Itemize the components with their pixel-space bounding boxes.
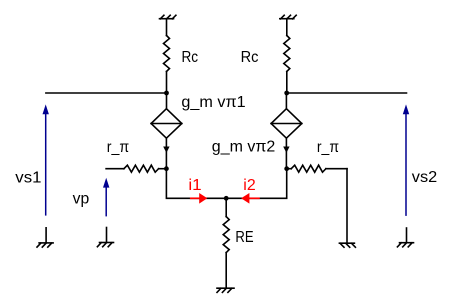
svg-text:vs1: vs1 <box>15 169 41 186</box>
current direction arrow of G2 <box>283 147 289 153</box>
voltage arrow vs2 (blue) <box>403 104 409 215</box>
svg-text:r_π: r_π <box>107 139 129 156</box>
node B2 (junction dot) <box>284 91 289 96</box>
svg-text:vs2: vs2 <box>412 169 437 186</box>
ground under vs2 <box>397 228 413 247</box>
ground under r_pi right (hatches to the right) <box>339 243 355 247</box>
svg-text:vp: vp <box>73 191 90 208</box>
voltage arrow vp (blue) <box>103 178 109 217</box>
node E (center junction dot) <box>224 196 229 201</box>
current direction arrow of G1 <box>163 147 169 153</box>
node E2 (junction dot) <box>284 166 289 171</box>
wire source G1 to node E1 <box>165 138 167 169</box>
wire right collector rail <box>287 92 407 94</box>
svg-text:Rc: Rc <box>182 49 199 66</box>
current arrow i1 (red, pointing right) <box>190 193 207 204</box>
current arrow i2 (red, pointing left) <box>241 193 260 204</box>
wire left collector rail <box>46 92 167 94</box>
ground under RE <box>217 288 234 292</box>
wire source G2 to node E2 <box>285 138 287 169</box>
svg-text:Rc: Rc <box>241 49 259 66</box>
node B1 (junction dot) <box>164 91 169 96</box>
supply rail right (VCC bar with hatches) <box>280 15 296 19</box>
wire supply-right to Rc2 <box>286 19 288 36</box>
wire Rc1 to collector node B1 <box>166 72 168 94</box>
wire Rc2 to node B2 <box>286 72 288 94</box>
svg-text:g_m vπ1: g_m vπ1 <box>181 94 245 111</box>
supply rail left (VCC bar with hatches) <box>160 15 176 19</box>
wire r_pi right to ground <box>346 169 348 244</box>
resistor RE (emitter resistor) <box>223 198 229 288</box>
svg-text:i2: i2 <box>243 177 256 194</box>
ground under vs1 <box>37 228 53 247</box>
resistor r_pi right (horizontal) <box>287 165 347 172</box>
wire node E1 down to emitter bus <box>166 169 226 199</box>
svg-text:r_π: r_π <box>317 139 339 156</box>
wire emitter bus right segment <box>226 169 287 199</box>
node E1 (junction dot) <box>164 166 169 171</box>
svg-text:g_m vπ2: g_m vπ2 <box>212 139 276 156</box>
controlled current source G2 (diamond) <box>271 109 302 139</box>
wire node B1 to source G1 <box>166 93 168 109</box>
voltage arrow vs1 (blue) <box>43 104 49 215</box>
resistor Rc2 (right collector resistor) <box>284 36 290 72</box>
resistor Rc1 (left collector resistor) <box>164 36 170 72</box>
resistor r_pi left (horizontal) <box>106 165 166 172</box>
controlled current source G1 (diamond) <box>151 109 182 139</box>
svg-text:i1: i1 <box>188 177 201 194</box>
wire node B2 to source G2 <box>285 93 287 109</box>
wire supply-left to Rc1 <box>166 19 168 36</box>
svg-text:RE: RE <box>235 229 253 246</box>
ground under vp <box>97 228 113 247</box>
